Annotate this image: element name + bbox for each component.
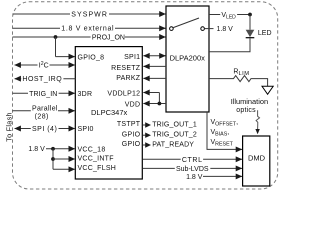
svg-text:1.8 V external: 1.8 V external xyxy=(61,26,114,33)
wire VDD xyxy=(143,101,166,107)
svg-text:I2C: I2C xyxy=(39,61,49,70)
wire PARKZ xyxy=(143,75,166,81)
wire SPI1 xyxy=(143,53,166,59)
resistor RLIM xyxy=(209,68,268,86)
svg-text:1.8 V: 1.8 V xyxy=(186,174,203,181)
wire TRIG_OUT_2 xyxy=(143,132,197,139)
svg-text:DLPC347x: DLPC347x xyxy=(91,108,128,117)
svg-text:PAT_READY: PAT_READY xyxy=(152,141,194,148)
svg-text:Parallel: Parallel xyxy=(32,105,58,112)
svg-text:GPIO: GPIO xyxy=(122,141,141,148)
illumination arrow xyxy=(262,86,273,94)
system boundary xyxy=(13,2,278,189)
wire TRIG_OUT_1 xyxy=(143,121,197,128)
svg-text:CTRL: CTRL xyxy=(182,157,203,164)
svg-text:RESETZ: RESETZ xyxy=(111,65,141,72)
label Illumination optics xyxy=(231,97,268,114)
svg-text:SPI (4): SPI (4) xyxy=(32,126,57,133)
wire 1.8 V to VCC pins xyxy=(28,146,75,172)
svg-text:To Flash: To Flash xyxy=(5,112,14,142)
svg-text:3DR: 3DR xyxy=(78,91,93,98)
block DMD xyxy=(243,136,270,186)
svg-text:VRESET: VRESET xyxy=(211,139,234,148)
svg-text:LED: LED xyxy=(258,30,272,37)
wire SYSPWR xyxy=(13,10,166,18)
wire Sub-LVDS xyxy=(143,164,243,173)
block U1 DLPA200x xyxy=(166,6,209,112)
svg-text:SYSPWR: SYSPWR xyxy=(71,11,108,18)
svg-text:GPIO_8: GPIO_8 xyxy=(78,55,105,62)
wire SPI (4) xyxy=(14,125,75,134)
svg-text:VBIAS,: VBIAS, xyxy=(211,129,230,138)
LED D1 xyxy=(246,15,272,38)
svg-text:VDDLP12: VDDLP12 xyxy=(107,91,140,98)
light to DMD xyxy=(255,110,259,134)
wire HOST_IRQ xyxy=(14,75,75,84)
wire PROJ_ON xyxy=(13,33,166,60)
svg-text:DLPA200x: DLPA200x xyxy=(170,53,206,62)
wire VDDLP12 xyxy=(143,90,159,104)
svg-text:SPI1: SPI1 xyxy=(124,54,140,61)
wire 1.8 V external xyxy=(13,24,166,32)
svg-text:GPIO: GPIO xyxy=(122,131,141,138)
svg-text:VCC_18: VCC_18 xyxy=(78,146,106,153)
svg-text:1.8 V: 1.8 V xyxy=(28,146,45,153)
wire VLED xyxy=(209,11,252,21)
svg-text:DMD: DMD xyxy=(248,153,266,162)
block U2 DLPC347x xyxy=(75,47,142,179)
svg-text:1.8 V: 1.8 V xyxy=(217,26,234,33)
wire CTRL xyxy=(143,155,243,164)
svg-text:SPI0: SPI0 xyxy=(78,126,94,133)
wire PAT_READY xyxy=(143,141,195,148)
svg-text:HOST_IRQ: HOST_IRQ xyxy=(22,76,62,83)
svg-text:PARKZ: PARKZ xyxy=(116,75,141,82)
wire I2C xyxy=(14,60,75,70)
svg-text:VOFFSET,: VOFFSET, xyxy=(211,119,239,128)
wire Parallel (28) xyxy=(13,105,76,120)
wire switched 1.8 V output xyxy=(204,26,233,33)
svg-text:TRIG_OUT_1: TRIG_OUT_1 xyxy=(152,121,197,128)
svg-text:Sub-LVDS: Sub-LVDS xyxy=(176,166,209,173)
LED return wire xyxy=(209,38,250,51)
svg-text:VCC_FLSH: VCC_FLSH xyxy=(78,165,117,172)
svg-text:PROJ_ON: PROJ_ON xyxy=(92,34,125,41)
switch S1 xyxy=(170,18,205,30)
svg-text:optics: optics xyxy=(236,107,256,114)
wire 1.8 V to DMD xyxy=(186,173,242,180)
wire RESETZ xyxy=(143,63,166,69)
wire VOFFSET VBIAS VRESET xyxy=(207,112,242,152)
wire TRIG_IN xyxy=(13,89,76,98)
svg-text:VDD: VDD xyxy=(125,102,141,109)
svg-text:TRIG_OUT_2: TRIG_OUT_2 xyxy=(152,132,197,139)
svg-text:TRIG_IN: TRIG_IN xyxy=(29,91,57,98)
svg-text:Illumination: Illumination xyxy=(231,97,268,106)
svg-text:(28): (28) xyxy=(35,113,49,120)
svg-text:TSTPT: TSTPT xyxy=(117,121,141,128)
svg-text:VCC_INTF: VCC_INTF xyxy=(78,156,114,163)
